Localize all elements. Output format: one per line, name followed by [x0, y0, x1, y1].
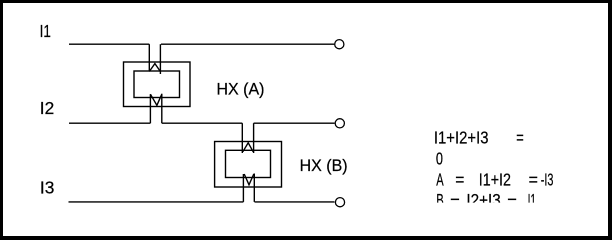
svg-text:=: = [529, 169, 538, 189]
svg-text:I1+I2: I1+I2 [479, 170, 511, 190]
svg-text:0: 0 [436, 150, 443, 170]
svg-text:HX (B): HX (B) [300, 157, 348, 175]
svg-text:I1+I2+I3: I1+I2+I3 [434, 128, 489, 148]
svg-text:I1: I1 [40, 22, 51, 41]
svg-text:=: = [455, 169, 464, 189]
svg-text:HX (A): HX (A) [217, 80, 265, 98]
svg-text:I3: I3 [40, 178, 54, 198]
svg-text:A: A [436, 171, 443, 190]
svg-text:=: = [516, 129, 523, 149]
svg-text:I2: I2 [40, 98, 54, 118]
svg-text:-I3: -I3 [541, 171, 554, 190]
